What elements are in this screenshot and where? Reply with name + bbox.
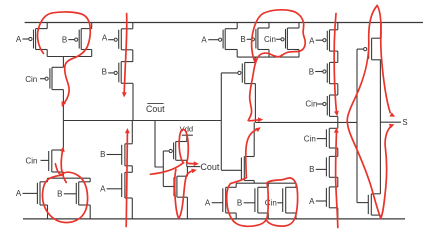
- transistor M10 NMOS A: [100, 172, 132, 198]
- annotation inverter sweep to lower left: [150, 163, 183, 175]
- wire M23 drain to node Sbar: [337, 116, 339, 122]
- wire M21 drain to M22: [337, 51, 339, 62]
- annotation down arrow column2 PMOS: [122, 14, 127, 98]
- transistor M11 PMOS inverter: [163, 142, 187, 161]
- wire inverter input from Coutbar: [155, 121, 163, 168]
- wire n1 to M3 source: [62, 57, 64, 68]
- transistor M1 PMOS A: [16, 29, 47, 50]
- annotation loop around A,B PMOS with arrow to Coutbar: [38, 12, 91, 107]
- transistor M2 PMOS B: [62, 29, 92, 50]
- wire M9 source to M10 drain: [131, 166, 133, 173]
- wire M11 source up: [186, 135, 188, 141]
- svg-text:Cin: Cin: [264, 35, 276, 44]
- svg-text:Cin: Cin: [25, 75, 37, 84]
- label Cout: [200, 162, 220, 172]
- svg-text:B: B: [240, 35, 245, 44]
- wire M12 drain up to output: [186, 167, 188, 177]
- wire M8 drain to node Coutbar: [132, 83, 134, 120]
- wire M14 source to Vdd: [268, 23, 270, 29]
- svg-text:A: A: [16, 35, 22, 44]
- wire Vdd rail: [25, 22, 423, 24]
- wire inverter input vertical: [356, 49, 358, 203]
- annotation circle around A,B NMOS: [42, 164, 87, 223]
- wire M22 drain to M23: [337, 84, 339, 95]
- annotation down arrow right PMOS column: [334, 14, 339, 117]
- wire M27 source to Vdd: [380, 23, 382, 39]
- wire M4 source down: [62, 172, 64, 178]
- transistor M14 PMOS B: [240, 28, 269, 50]
- wire M5 drain up: [47, 178, 49, 182]
- wire Cout output: [187, 166, 201, 168]
- wire M16 drain to node Sbar: [254, 84, 256, 123]
- transistor M26 NMOS A: [309, 187, 338, 208]
- wire M24 source to M25: [337, 148, 339, 156]
- transistor M13 PMOS A: [201, 29, 237, 50]
- label S: [402, 118, 407, 127]
- wire M15 source to Vdd: [298, 23, 300, 29]
- svg-text:A: A: [102, 33, 108, 42]
- transistor M9 NMOS B: [100, 144, 132, 166]
- wire M2 drain down: [91, 50, 93, 57]
- transistor M8 PMOS B: [102, 62, 133, 84]
- wire M19 drain up: [267, 183, 269, 187]
- transistor M16 PMOS Coutbar: [221, 63, 255, 84]
- wire M19 source to GND: [267, 213, 269, 219]
- svg-text:B: B: [309, 165, 314, 174]
- wire M28 source to GND: [379, 215, 381, 219]
- svg-text:A: A: [205, 198, 211, 207]
- transistor M23 PMOS Cin: [305, 95, 337, 116]
- wire M12 source to GND: [186, 197, 188, 219]
- annotation lens right-top branch with S arrow: [377, 6, 395, 117]
- transistor M18 NMOS A: [205, 187, 236, 213]
- wire M26 source to GND: [337, 208, 339, 219]
- wire M2 source to Vdd: [91, 23, 93, 29]
- wire M3 drain to node Coutbar: [62, 90, 64, 121]
- svg-text:A: A: [16, 189, 22, 198]
- wire M6 drain up: [89, 178, 91, 182]
- svg-text:Cin: Cin: [304, 134, 316, 143]
- svg-text:B: B: [102, 68, 107, 77]
- svg-text:A: A: [309, 197, 315, 206]
- wire node n1 (A||B drains): [47, 56, 91, 58]
- annotation up arrow to Cin NMOS: [60, 146, 66, 182]
- svg-text:Cin: Cin: [265, 199, 277, 208]
- wire M9 drain to node Coutbar: [131, 121, 133, 144]
- wire M27 drain long vertical: [379, 60, 381, 194]
- transistor M7 PMOS A: [102, 29, 133, 50]
- transistor M17 NMOS Coutbar: [221, 157, 254, 181]
- wire M17 source down: [253, 181, 255, 184]
- transistor M5 NMOS A: [16, 182, 48, 205]
- svg-text:B: B: [100, 150, 105, 159]
- svg-text:A: A: [100, 185, 106, 194]
- wire M13 drain down: [236, 50, 238, 58]
- wire M10 source to GND: [131, 198, 133, 219]
- wire node n3: [237, 56, 299, 58]
- svg-text:S: S: [402, 118, 407, 127]
- annotation big lens left arc: [347, 6, 381, 219]
- transistor M24 NMOS Cin: [304, 128, 338, 148]
- svg-text:A: A: [309, 36, 315, 45]
- transistor M6 NMOS B: [57, 182, 90, 205]
- svg-text:Cout: Cout: [200, 162, 220, 172]
- wire M15 drain down: [298, 50, 300, 58]
- wire node n2 (A||B NMOS drains): [48, 177, 91, 179]
- wire M17 drain to node Sbar: [253, 122, 255, 156]
- wire M7 source to Vdd: [132, 23, 134, 29]
- wire M21 source to Vdd: [337, 23, 339, 30]
- transistor M19 NMOS B: [237, 187, 268, 213]
- wire GND rail: [23, 218, 405, 220]
- svg-text:A: A: [201, 35, 207, 44]
- wire M14 drain down: [268, 50, 270, 58]
- svg-text:Cin: Cin: [305, 100, 317, 109]
- transistor M20 NMOS Cin: [265, 187, 296, 213]
- svg-text:Cout: Cout: [146, 104, 165, 114]
- wire M20 drain up: [295, 183, 297, 187]
- wire M24 drain to node Sbar: [337, 122, 339, 128]
- transistor M27 PMOS inverter: [357, 38, 381, 60]
- svg-text:B: B: [62, 35, 67, 44]
- wire M7 drain to M8 source: [132, 50, 134, 62]
- wire inverter gate vertical: [162, 151, 164, 187]
- annotation loop around B,Cin NMOS with arrow to Sbar: [227, 127, 298, 226]
- transistor M12 NMOS inverter: [163, 176, 187, 197]
- wire n3 down to M16: [254, 57, 256, 62]
- wire node Coutbar: [63, 120, 221, 122]
- wire M11 drain to output: [186, 160, 188, 166]
- annotation up arrow right NMOS column: [334, 128, 339, 228]
- svg-text:B: B: [237, 199, 242, 208]
- transistor M4 NMOS Cin: [25, 150, 63, 172]
- wire M6 source to GND: [89, 205, 91, 219]
- transistor M22 PMOS B: [309, 62, 338, 83]
- wire node n4: [236, 182, 296, 184]
- svg-text:B: B: [309, 67, 314, 76]
- annotation inverter balloon with arrow to Cout: [179, 129, 199, 166]
- transistor M21 PMOS A: [309, 30, 338, 51]
- transistor M3 PMOS Cin: [25, 67, 63, 89]
- svg-text:Cin: Cin: [25, 156, 37, 165]
- annotation lens right-bottom branch with S arrow: [381, 124, 395, 218]
- label Coutbar: [146, 103, 165, 114]
- wire M4 drain to node Coutbar: [62, 121, 64, 151]
- wire M1 source to Vdd: [46, 23, 48, 29]
- annotation up arrow column2 NMOS: [125, 128, 130, 227]
- wire M20 source to GND: [295, 213, 297, 219]
- power Vdd stub: [182, 135, 193, 141]
- wire M18 drain up: [235, 183, 237, 187]
- wire M25 source to M26: [337, 177, 339, 187]
- wire node Sbar: [255, 121, 357, 123]
- wire S output: [380, 121, 401, 123]
- wire M1 drain down: [46, 50, 48, 57]
- svg-text:B: B: [57, 190, 62, 199]
- wire M18 source to GND: [235, 213, 237, 219]
- label Vdd: [180, 124, 194, 133]
- wire M13 source to Vdd: [236, 23, 238, 29]
- wire M5 source to GND: [47, 205, 49, 219]
- wire Coutbar gate vertical: [220, 73, 222, 170]
- transistor M25 NMOS B: [309, 156, 338, 177]
- transistor M28 NMOS inverter: [357, 194, 380, 215]
- transistor M15 PMOS Cin: [264, 28, 299, 50]
- annotation loop around B,Cin PMOS with tail to Sbar arrow: [248, 10, 305, 122]
- annotation inverter lower U with arrow: [175, 169, 197, 219]
